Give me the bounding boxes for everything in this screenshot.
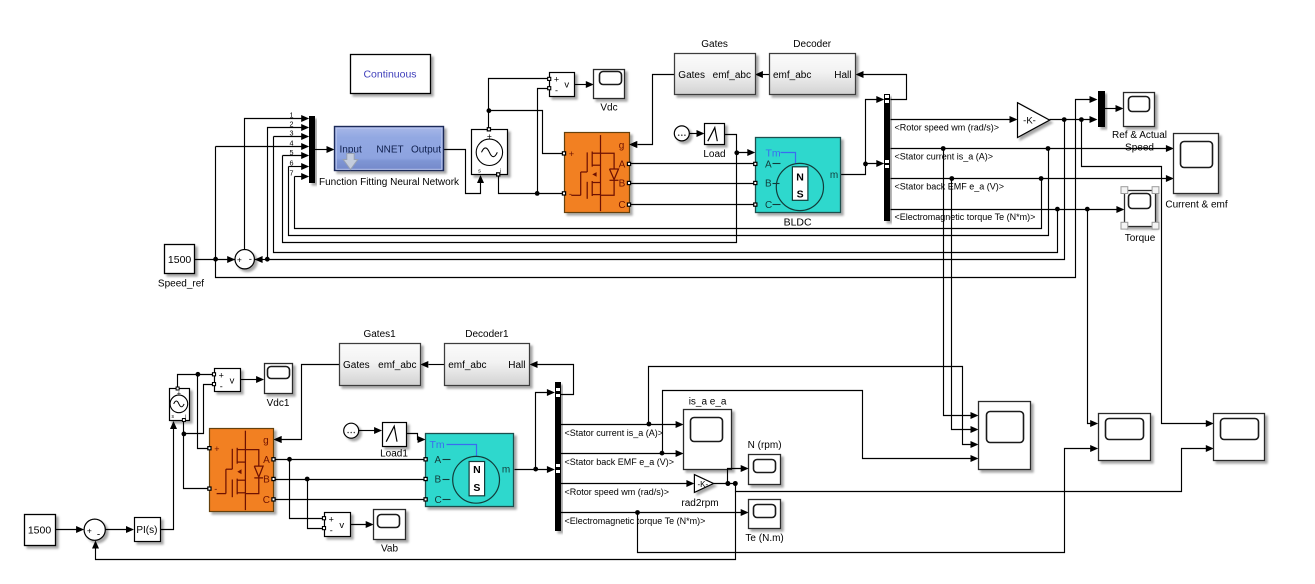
svg-text:A: A [619,160,626,171]
svg-text:emf_abc: emf_abc [773,70,811,81]
svg-text:Gates: Gates [701,39,728,50]
svg-text:<Electromagnetic torque Te (N*: <Electromagnetic torque Te (N*m)> [565,516,706,526]
svg-text:A: A [765,159,772,170]
svg-text:+: + [219,370,224,380]
svg-text:Vab: Vab [381,544,398,555]
svg-text:C: C [435,495,442,506]
svg-text:-: - [330,526,333,536]
svg-text:Torque: Torque [1125,233,1156,244]
svg-text:v: v [230,376,235,387]
svg-text:Output: Output [411,145,441,156]
svg-text:B: B [263,475,270,486]
svg-text:BLDC: BLDC [784,216,812,228]
svg-text:1: 1 [290,111,294,120]
svg-text:6: 6 [290,159,294,168]
svg-text:Gates1: Gates1 [363,329,396,340]
svg-text:2: 2 [290,120,294,129]
svg-text:Speed_ref: Speed_ref [158,278,204,289]
svg-text:+: + [214,444,219,454]
svg-text:S: S [797,188,804,200]
svg-text:A: A [263,455,270,466]
svg-text:+: + [329,515,334,525]
svg-text:Decoder: Decoder [793,39,831,50]
svg-text:+: + [487,131,492,141]
svg-text:B: B [435,475,442,486]
svg-text:N: N [796,171,804,183]
svg-text:<Stator back EMF e_a (V)>: <Stator back EMF e_a (V)> [565,457,675,467]
svg-text:g: g [619,141,625,152]
svg-text:Hall: Hall [834,70,851,81]
svg-text:emf_abc: emf_abc [448,360,486,371]
svg-text:Vdc1: Vdc1 [267,398,290,409]
svg-text:<Stator back EMF e_a (V)>: <Stator back EMF e_a (V)> [895,182,1005,192]
svg-text:3: 3 [290,129,294,138]
svg-text:+: + [87,525,92,535]
svg-text:Gates: Gates [343,360,370,371]
svg-text:Current & emf: Current & emf [1165,200,1227,211]
svg-text:Continuous: Continuous [363,69,416,81]
svg-text:-: - [214,484,217,494]
svg-text:m: m [830,170,838,181]
svg-text:Te (N.m): Te (N.m) [745,533,783,544]
svg-text:Speed: Speed [1125,142,1154,153]
svg-text:<Stator current is_a (A)>: <Stator current is_a (A)> [895,151,994,161]
svg-text:v: v [339,520,344,531]
svg-text:Vdc: Vdc [600,103,617,114]
svg-text:-: - [249,254,252,265]
svg-text:s: s [478,169,481,175]
svg-text:C: C [765,200,772,211]
svg-text:-: - [97,530,100,541]
svg-text:rad2rpm: rad2rpm [681,498,718,509]
svg-text:N: N [473,464,481,476]
svg-text:Decoder1: Decoder1 [465,329,509,340]
svg-text:Tm: Tm [430,439,445,451]
svg-text:<Rotor speed wm (rad/s)>: <Rotor speed wm (rad/s)> [565,487,670,497]
svg-text:emf_abc: emf_abc [378,360,416,371]
svg-text:Load1: Load1 [380,449,408,460]
svg-text:A: A [435,455,442,466]
svg-text:C: C [263,495,270,506]
svg-text:Ref & Actual: Ref & Actual [1112,130,1167,141]
svg-text:Tm: Tm [766,148,781,160]
svg-text:Gates: Gates [678,70,705,81]
svg-text:<Rotor speed wm (rad/s)>: <Rotor speed wm (rad/s)> [895,123,1000,133]
svg-text:Hall: Hall [508,360,525,371]
svg-text:v: v [564,80,569,91]
svg-text:-K-: -K- [1023,116,1036,127]
svg-text:is_a e_a: is_a e_a [689,396,727,407]
svg-text:-: - [555,86,558,96]
svg-text:+: + [554,74,559,84]
svg-text:B: B [619,179,626,190]
svg-text:-K-: -K- [697,480,708,489]
svg-text:-: - [220,382,223,392]
svg-text:4: 4 [290,139,294,148]
svg-text:B: B [765,179,772,190]
svg-text:-: - [569,189,572,199]
svg-text:Function Fitting Neural Networ: Function Fitting Neural Network [319,177,460,188]
svg-text:C: C [618,200,625,211]
svg-text:5: 5 [290,148,294,157]
svg-text:1500: 1500 [168,254,192,266]
svg-text:<Stator current is_a (A)>: <Stator current is_a (A)> [565,428,664,438]
svg-text:+: + [237,255,242,265]
svg-text:+: + [569,149,574,159]
svg-text:NNET: NNET [376,145,403,156]
svg-text:PI(s): PI(s) [136,525,157,536]
svg-text:<Electromagnetic torque Te (N*: <Electromagnetic torque Te (N*m)> [895,212,1036,222]
svg-text:7: 7 [290,168,294,177]
svg-text:Load: Load [703,149,725,160]
svg-text:emf_abc: emf_abc [713,70,751,81]
svg-text:N (rpm): N (rpm) [748,440,782,451]
svg-text:+: + [177,391,181,398]
svg-text:m: m [502,465,510,476]
svg-text:S: S [473,482,480,494]
svg-text:1500: 1500 [28,525,52,537]
svg-text:g: g [263,435,269,446]
